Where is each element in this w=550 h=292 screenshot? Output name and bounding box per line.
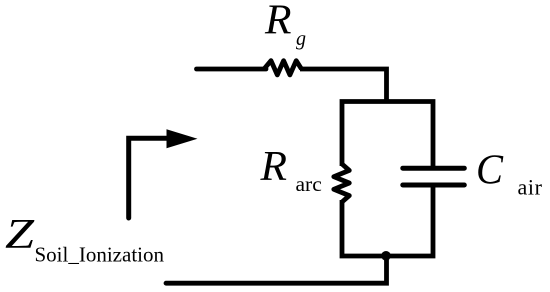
svg-text:arc: arc: [296, 172, 322, 196]
node A junction dot at loop bottom: [381, 251, 391, 261]
label Rarc: [259, 144, 321, 196]
capacitor Cair bottom plate: [403, 183, 465, 188]
svg-text:Soil_Ionization: Soil_Ionization: [35, 243, 165, 267]
resistor Rarc vertical zigzag: [334, 164, 350, 202]
wire right segment and drop to parallel block: [300, 69, 387, 103]
wire: top input wire with Rg zigzag and corner down to node A: [197, 61, 387, 103]
label Rg: [264, 0, 306, 50]
arrow: impedance looking arrow (vertical riser and right-pointing head): [129, 138, 167, 218]
svg-text:R: R: [264, 0, 292, 44]
svg-text:R: R: [259, 144, 287, 190]
wire: parallel loop bottom (left vertical bottom, bottom horizontal, right vertical bottom): [342, 185, 433, 256]
svg-text:Z: Z: [5, 212, 35, 258]
svg-text:g: g: [296, 28, 306, 50]
wire: from node A down and left along bottom rail: [166, 255, 387, 283]
svg-text:air: air: [518, 175, 543, 200]
capacitor Cair top plate: [403, 166, 465, 171]
wire left segment: [197, 67, 267, 72]
resistor Rg zigzag: [264, 61, 302, 75]
wire: parallel loop top (left vertical top, top horizontal, right vertical top): [342, 102, 433, 167]
label Z Soil_Ionization: [5, 212, 164, 267]
arrowhead: [167, 129, 198, 148]
svg-text:C: C: [476, 148, 504, 194]
label Cair: [476, 148, 543, 200]
